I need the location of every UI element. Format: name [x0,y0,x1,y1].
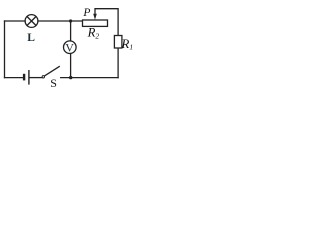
wire: wiper top run to right side and down to R1 [95,9,118,36]
wire: voltmeter branch lower [70,54,72,78]
svg-text:S: S [50,76,57,90]
switch S blade [45,66,60,76]
lamp L (circle with X) [25,15,38,28]
wire: top left segment to lamp [5,20,26,22]
junction dot at bottom wire / voltmeter branch [69,76,72,79]
wire: battery to switch pivot [29,77,42,79]
voltmeter U (circle with V) [64,41,77,54]
junction dot at top wire / voltmeter branch [69,19,72,22]
background [0,0,134,90]
wire: voltmeter branch upper [70,21,72,41]
wire: switch right segment to bottom-right corner [61,77,118,79]
svg-text:L: L [27,32,35,44]
rheostat wiper arrow P [93,14,97,20]
rheostat R2 body [83,20,108,26]
wire: left vertical side [4,21,6,78]
switch S pivot circle [42,76,44,78]
svg-text:V: V [65,41,74,55]
battery cell: short thick negative plate [23,74,25,81]
wire: bottom left segment to battery [5,77,23,79]
wire: R1 bottom to bottom-right corner [117,48,119,78]
resistor R1 body [114,36,122,49]
svg-text:P: P [82,7,90,19]
battery cell: long thin positive plate [28,70,29,85]
wire: top segment lamp to R2 left terminal [38,20,83,22]
